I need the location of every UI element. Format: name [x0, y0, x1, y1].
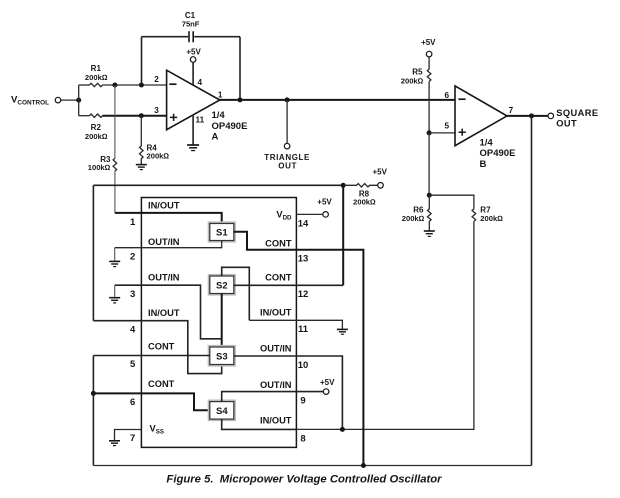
- svg-text:1/4: 1/4: [480, 137, 494, 148]
- svg-text:1: 1: [218, 90, 223, 99]
- wire R2 left lead: [79, 115, 90, 117]
- node pin 6 junction on vertical B: [91, 391, 96, 396]
- svg-text:OUT: OUT: [556, 118, 577, 128]
- wire S4 bottom to pin 8 row: [222, 419, 297, 429]
- wire pin 1 row to S1 top: [115, 213, 222, 224]
- svg-text:4: 4: [198, 78, 203, 87]
- svg-text:10: 10: [298, 360, 309, 371]
- +5V terminal at pin 9: [320, 378, 335, 394]
- ground at pin 3: [109, 285, 120, 303]
- capacitor C1: [142, 11, 241, 42]
- svg-text:2: 2: [130, 252, 135, 263]
- svg-text:IN/OUT: IN/OUT: [260, 416, 292, 426]
- wire down to TRIANGLE OUT terminal: [286, 100, 288, 143]
- wire R3 down to pin 1 of switch IC: [114, 171, 116, 213]
- node R8 junction: [341, 183, 346, 188]
- wire R2 to op-amp A pin 3: [103, 115, 167, 117]
- +5V supply terminal above R5: [421, 38, 436, 57]
- op-amp U1B triangle: [445, 86, 516, 170]
- resistor R7: [472, 205, 503, 223]
- svg-text:200kΩ: 200kΩ: [480, 214, 503, 223]
- wire pin 6 row jog to S4 left: [93, 393, 209, 410]
- wire pin 14 stub to +5V: [296, 213, 322, 215]
- wire pin5 node down to R6/R7 node: [428, 133, 430, 195]
- svg-text:CONT: CONT: [265, 238, 292, 248]
- wire R8 node row: [93, 184, 343, 186]
- svg-text:S1: S1: [216, 228, 228, 239]
- ground at pin 11: [337, 329, 348, 334]
- node R6/R7 junction: [427, 193, 432, 198]
- wire input branch vertical: [78, 85, 80, 116]
- svg-text:OP490E: OP490E: [480, 148, 516, 159]
- svg-text:3: 3: [154, 106, 159, 115]
- ground below R4: [136, 165, 147, 170]
- node input junction: [76, 98, 81, 103]
- node SQUARE OUT terminal: [548, 108, 598, 129]
- wire R5 down crossing pin6 line to pin 5 node: [428, 82, 430, 133]
- svg-text:IN/OUT: IN/OUT: [148, 308, 180, 318]
- svg-text:S2: S2: [216, 280, 228, 291]
- svg-text:S4: S4: [216, 406, 228, 417]
- wire pin 5 row to S3 left: [93, 355, 209, 357]
- node TRIANGLE OUT terminal: [264, 143, 310, 170]
- svg-text:200kΩ: 200kΩ: [85, 132, 108, 141]
- switch S1: [209, 223, 235, 242]
- node R2/R4 junction: [139, 113, 144, 118]
- svg-text:1: 1: [130, 217, 136, 228]
- svg-text:OUT: OUT: [278, 161, 297, 170]
- resistor R1: [85, 64, 108, 87]
- wire pin 3 row jog to S2 bottom / S3 top net: [115, 285, 222, 339]
- wire VCONTROL to junction: [61, 99, 79, 101]
- +5V terminal for R8: [372, 168, 387, 189]
- wire C1 left lead down to inverting input node: [141, 37, 143, 85]
- svg-text:7: 7: [509, 106, 514, 115]
- wire S2 right control to pin 12 and up to R8 node: [234, 284, 343, 286]
- svg-text:6: 6: [445, 91, 450, 100]
- svg-text:200kΩ: 200kΩ: [402, 214, 425, 223]
- svg-text:7: 7: [130, 433, 135, 444]
- svg-text:OP490E: OP490E: [212, 121, 248, 132]
- svg-text:11: 11: [298, 324, 309, 335]
- svg-text:OUT/IN: OUT/IN: [148, 237, 180, 247]
- svg-text:100kΩ: 100kΩ: [88, 163, 111, 172]
- wire R1 left lead: [79, 84, 90, 86]
- wire C1 right lead down to op-amp A output: [239, 37, 241, 100]
- wire bottom feedback line: [93, 465, 531, 467]
- node op-amp B pin 5 junction: [427, 130, 432, 135]
- svg-text:12: 12: [298, 289, 309, 300]
- node triangle-out junction on output: [285, 97, 290, 102]
- svg-text:IN/OUT: IN/OUT: [148, 201, 180, 211]
- wire op-amp B output: [507, 115, 548, 117]
- switch S4: [209, 401, 235, 421]
- svg-text:A: A: [212, 131, 219, 142]
- wire S2 top over to pin 11 drop: [222, 267, 250, 320]
- wire pin 7 stub to ground: [115, 430, 142, 441]
- svg-text:4: 4: [130, 324, 136, 335]
- resistor R8: [343, 184, 378, 207]
- wire pin 11 row to ground stub: [249, 320, 342, 329]
- +5V terminal at pin 14: [317, 198, 332, 218]
- svg-text:200kΩ: 200kΩ: [147, 152, 170, 161]
- resistor R4: [140, 116, 170, 165]
- wire R8 node vertical down to pin 12: [342, 185, 344, 285]
- wire vertical A from R8 row to pin 4: [92, 185, 94, 320]
- svg-text:200kΩ: 200kΩ: [85, 73, 108, 82]
- svg-text:CONT: CONT: [148, 342, 175, 352]
- svg-text:OUT/IN: OUT/IN: [260, 380, 292, 390]
- resistor R3: [88, 85, 117, 172]
- svg-text:13: 13: [298, 254, 309, 265]
- svg-text:11: 11: [196, 115, 205, 124]
- switch S2: [209, 275, 235, 295]
- resistor R2: [85, 114, 108, 141]
- svg-text:5: 5: [130, 359, 136, 370]
- svg-text:+5V: +5V: [320, 378, 335, 387]
- svg-text:S3: S3: [216, 351, 228, 362]
- svg-text:2: 2: [154, 75, 159, 84]
- wire S4 top to pin 9 row: [222, 392, 324, 402]
- svg-text:Figure 5. Micropower Voltage: Figure 5. Micropower Voltage Controlled …: [166, 474, 442, 486]
- svg-text:SQUARE: SQUARE: [556, 108, 598, 118]
- node VCONTROL input terminal: [11, 95, 61, 107]
- svg-text:3: 3: [130, 289, 135, 300]
- wire R1 to op-amp A pin 2: [103, 84, 167, 86]
- +5V supply terminal for op-amp A pin 4: [186, 47, 201, 85]
- svg-text:75nF: 75nF: [182, 19, 200, 28]
- node pin13 control junction on bottom line: [361, 463, 366, 468]
- wire pin 5 stub to op-amp B: [429, 132, 455, 134]
- resistor R5: [401, 57, 431, 85]
- svg-text:1/4: 1/4: [212, 110, 226, 121]
- wire op-amp A output to op-amp B pin 6: [219, 99, 455, 101]
- wire pin 4 row jog to S3 bottom: [93, 321, 221, 374]
- svg-text:200kΩ: 200kΩ: [353, 197, 376, 206]
- node pin10/pin8 junction: [340, 427, 345, 432]
- svg-text:OUT/IN: OUT/IN: [260, 344, 292, 354]
- svg-text:+5V: +5V: [372, 168, 387, 177]
- op-amp U1A triangle: [154, 70, 247, 142]
- node square-out feedback junction: [529, 113, 534, 118]
- node C1 feedback junction on output: [238, 97, 243, 102]
- svg-text:200kΩ: 200kΩ: [401, 76, 424, 85]
- svg-text:OUT/IN: OUT/IN: [148, 273, 180, 283]
- ground at pin 2: [109, 248, 120, 267]
- wire op-amp A pin 11 to ground: [192, 115, 194, 145]
- switch S3: [209, 346, 235, 366]
- quad switch IC box: [141, 198, 296, 448]
- svg-text:8: 8: [300, 433, 305, 444]
- node R1/R3 junction: [112, 83, 117, 88]
- wire vertical B pin5/pin6 to bottom line: [92, 356, 94, 466]
- svg-text:B: B: [480, 159, 487, 170]
- svg-text:+5V: +5V: [317, 198, 332, 207]
- svg-text:6: 6: [130, 397, 135, 408]
- ground op-amp A pin 11: [187, 145, 199, 151]
- wire S1 right control to pin 13 and down to bottom line: [234, 232, 364, 466]
- wire S3 right to pin 10 and down to pin 8 row: [234, 356, 343, 429]
- wire square out feedback down right side: [531, 116, 533, 466]
- svg-text:CONT: CONT: [148, 379, 175, 389]
- node R1/C1 feedback junction: [139, 83, 144, 88]
- svg-text:5: 5: [445, 121, 450, 130]
- wire pin 2 row to S1 bottom: [115, 241, 222, 248]
- resistor R6: [402, 195, 431, 231]
- ground below R6: [424, 231, 435, 236]
- wire S2 bottom to S3 top: [221, 294, 223, 348]
- svg-text:IN/OUT: IN/OUT: [260, 307, 292, 317]
- wire R7 bottom down to pin 8 row: [296, 222, 474, 430]
- svg-text:CONT: CONT: [265, 273, 292, 283]
- svg-text:+5V: +5V: [186, 47, 201, 56]
- ground at pin 7: [109, 441, 120, 446]
- svg-text:9: 9: [300, 396, 305, 407]
- svg-text:R1: R1: [91, 64, 102, 73]
- svg-text:14: 14: [298, 218, 309, 229]
- svg-text:+5V: +5V: [421, 38, 436, 47]
- wire R6/R7 node to R7 top: [429, 195, 474, 209]
